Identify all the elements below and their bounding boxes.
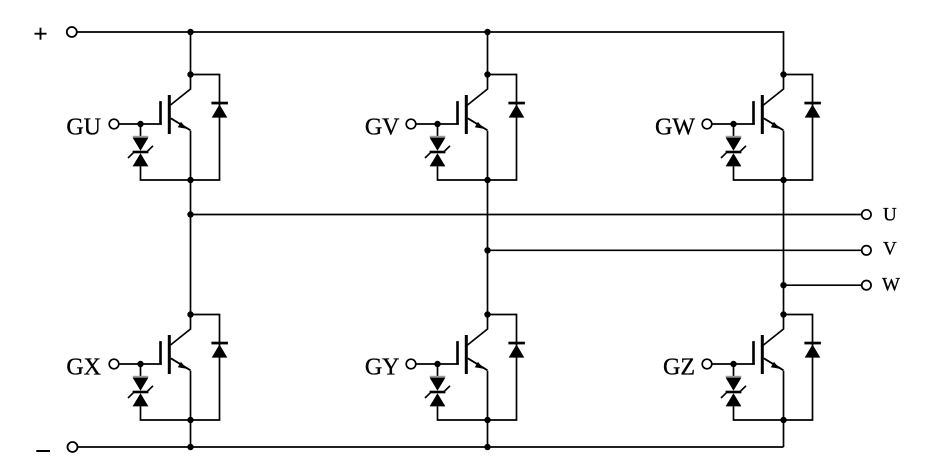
svg-text:GZ: GZ xyxy=(663,354,695,380)
svg-text:GX: GX xyxy=(66,354,101,380)
svg-text:V: V xyxy=(883,239,897,260)
svg-text:GV: GV xyxy=(365,114,400,140)
svg-text:GU: GU xyxy=(66,114,101,140)
svg-text:U: U xyxy=(883,205,897,226)
svg-text:W: W xyxy=(882,274,900,295)
svg-text:GY: GY xyxy=(365,354,400,380)
svg-text:GW: GW xyxy=(655,114,695,140)
